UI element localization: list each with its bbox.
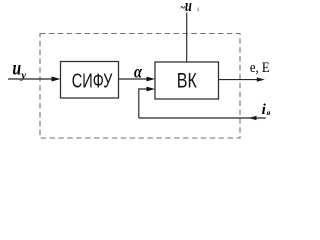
wire e,E output from ВК <box>219 77 265 81</box>
wire i_ya feedback horizontal <box>139 116 266 120</box>
wire alpha: СИФУ to ВК <box>119 77 156 82</box>
svg-text:у: у <box>19 70 26 81</box>
block СИФУ <box>61 62 119 99</box>
wire ~u1 input to ВК top <box>186 13 188 63</box>
wire feedback riser into ВК <box>139 87 155 118</box>
svg-text:e, E: e, E <box>250 60 270 76</box>
label ~u1 <box>181 0 200 15</box>
svg-text:α: α <box>134 62 143 82</box>
svg-text:я: я <box>266 108 271 117</box>
svg-text:u: u <box>12 55 21 79</box>
dashed enclosure (converter outline) <box>40 34 240 139</box>
svg-text:ВК: ВК <box>177 69 198 93</box>
svg-text:СИФУ: СИФУ <box>72 70 113 92</box>
wire u_y input to СИФУ <box>8 77 61 82</box>
label u_y <box>12 55 26 81</box>
svg-text:u: u <box>185 0 192 15</box>
label e, E <box>250 60 270 76</box>
label i_ya <box>262 102 271 118</box>
label alpha <box>134 62 143 82</box>
block ВК <box>155 62 219 99</box>
